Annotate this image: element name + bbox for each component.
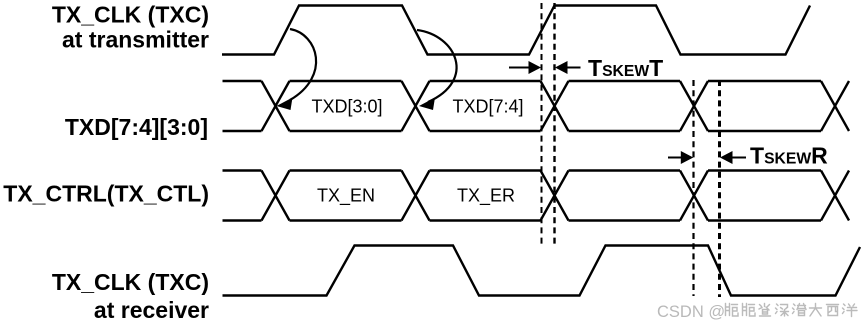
svg-text:TX_EN: TX_EN: [317, 185, 375, 206]
svg-text:at transmitter: at transmitter: [62, 26, 209, 52]
svg-text:TXD[3:0]: TXD[3:0]: [311, 97, 382, 117]
svg-text:CSDN @: CSDN @: [657, 303, 725, 321]
TSKEWR measure arrows: [668, 157, 746, 159]
watermark hanzi 西: [827, 305, 839, 316]
node TX_CTRL crossover X1: [262, 171, 290, 221]
arrowhead of curved arrow 1: [277, 98, 293, 111]
TSKEWT measure arrows: [509, 67, 581, 69]
watermark hanzi 大: [810, 304, 822, 317]
svg-text:TX_CTRL(TX_CTL): TX_CTRL(TX_CTL): [3, 180, 209, 206]
node TX_CTRL crossover X4: [680, 171, 708, 221]
node TXD crossover X3: [541, 81, 569, 131]
arrowhead of curved arrow 2: [419, 98, 435, 111]
dashed line at data transition (TSKEWR left): [692, 80, 694, 296]
curved arrow from clock rising edge to TXD[3:0] crossover: [290, 29, 457, 102]
watermark hanzi 鲨: [759, 304, 771, 317]
node TXD crossover X5: [821, 81, 849, 131]
wire TXD bus top rail: [223, 80, 822, 82]
watermark hanzi 深: [776, 304, 789, 316]
svg-text:TX_CLK (TXC): TX_CLK (TXC): [52, 1, 209, 27]
wire TXD bus bottom rail: [223, 130, 822, 132]
svg-text:TX_ER: TX_ER: [457, 185, 515, 206]
dashed line at data transition (TSKEWT right): [553, 3, 555, 244]
node TXD crossover X1: [262, 81, 290, 131]
svg-text:TXD[7:4][3:0]: TXD[7:4][3:0]: [65, 114, 208, 140]
node TXD crossover X4: [680, 81, 708, 131]
dashed line at receiver clock edge (TSKEWR right): [718, 80, 721, 297]
node TXD crossover X2: [402, 81, 430, 131]
wire TX_CLK receiver waveform: [223, 246, 861, 296]
watermark hanzi 潜: [793, 304, 807, 316]
node TX_CTRL crossover X5: [821, 171, 849, 221]
dashed line at transmitter clock edge (TSKEWT left): [541, 3, 543, 244]
wire TX_CTRL top rail: [223, 169, 822, 171]
svg-text:TSKEWR: TSKEWR: [750, 143, 828, 169]
watermark hanzi 洋: [843, 304, 858, 317]
node TX_CTRL crossover X2: [402, 171, 430, 221]
wire TX_CLK transmitter waveform: [222, 6, 810, 55]
watermark hanzi 脆: [743, 304, 756, 317]
watermark hanzi 脆: [726, 304, 739, 317]
wire TX_CTRL bottom rail: [223, 219, 822, 221]
node TX_CTRL crossover X3: [541, 171, 569, 221]
svg-text:TX_CLK (TXC): TX_CLK (TXC): [52, 269, 209, 295]
svg-text:at receiver: at receiver: [94, 297, 209, 323]
svg-text:TSKEWT: TSKEWT: [588, 55, 663, 81]
svg-text:TXD[7:4]: TXD[7:4]: [452, 97, 523, 117]
